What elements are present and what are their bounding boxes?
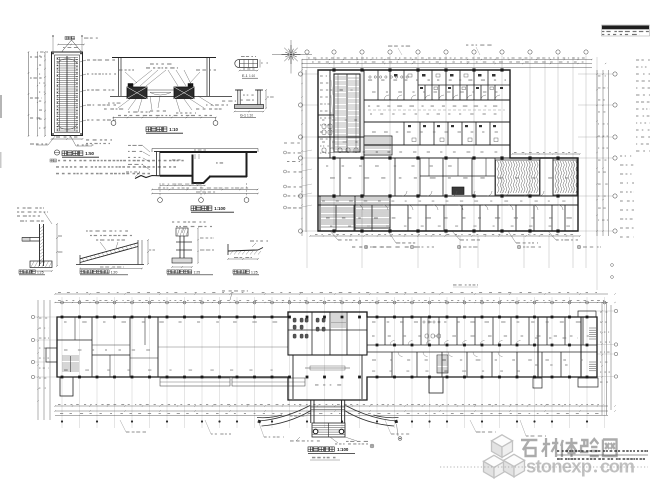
plan2 canopy edge over steps [311, 406, 345, 408]
section C-C small dim cluster [160, 185, 205, 187]
plan1 interior door arcs band [358, 191, 563, 210]
plan1 mid rooms walls [364, 121, 510, 123]
sheet left edge artifact [0, 95, 2, 118]
svg-text:1:100: 1:100 [337, 447, 349, 452]
plan2 interior stair hatch right band [437, 355, 448, 373]
watermark glyph ti [561, 440, 563, 446]
plan2 open bay mid line [158, 346, 288, 348]
svg-text:1:25: 1:25 [193, 270, 200, 274]
plan1 mid rooms equipment marks [408, 125, 496, 127]
north arrow axes [272, 54, 312, 56]
plan2 column grid lines [62, 297, 605, 428]
plan1 stair hatch block [355, 196, 390, 228]
plan1 far right elevation text column [636, 60, 639, 61]
section B-B left curb block [127, 87, 147, 99]
plan2 entrance wing right tip marker [394, 420, 398, 424]
plan2 bottom grid bubbles [61, 420, 63, 422]
ramp detail leader labels [86, 230, 88, 231]
plan1 auditorium seating hatch 2 [553, 160, 577, 195]
ramp detail left dimension line [44, 52, 46, 136]
watermark dotted underline [440, 466, 648, 468]
section B-B right wall [206, 58, 208, 97]
ramp detail end posts [79, 255, 81, 265]
plan2 right thick walls [537, 317, 539, 377]
section B-B right curb block [174, 87, 194, 99]
ramp plan switchback bottom arc [58, 125, 77, 129]
section C-C ground line [152, 148, 258, 150]
section C-C title glyphs [191, 206, 196, 211]
plan2 top dimension lines [55, 293, 608, 295]
channel G-1 left post [238, 90, 241, 105]
detail A-A wall hatch [40, 226, 44, 264]
grating E-1 plan [240, 60, 258, 68]
svg-text:1:20: 1:20 [111, 270, 118, 274]
plan1 vehicle ramp rails [334, 74, 360, 152]
svg-text:G-1: G-1 [240, 114, 246, 118]
plan2 entrance steps [312, 423, 345, 437]
plan1 top rooms door arcs [384, 95, 500, 100]
plan2 right end stair hatch lower [589, 362, 596, 371]
plan2 left block inner partitions [74, 317, 76, 340]
channel G-1 top caps [235, 89, 243, 91]
plan1 left stair core [320, 196, 355, 231]
apron detail leader label [250, 240, 254, 241]
svg-text:1:10: 1:10 [249, 74, 255, 78]
plan1 ramp side walls [329, 70, 331, 158]
ramp detail left dimension text [39, 56, 41, 57]
plan2 right annex [429, 377, 443, 393]
plan1 right grid bubbles [613, 72, 617, 76]
plan2 top grid bubbles [61, 301, 64, 304]
plan1 toilet fixture circles row [369, 76, 408, 78]
plan1 interior dimension noise rows [368, 80, 372, 81]
ramp plan switchback top arc [58, 59, 77, 63]
gutter detail leader labels [172, 221, 174, 222]
plan2 entrance wing right arcs [345, 406, 399, 427]
general notes line 2 [56, 166, 59, 168]
ramp plan hatch rungs [57, 58, 79, 132]
section B-B leader fan upper [132, 70, 152, 86]
plan2 left dimension strip [37, 300, 39, 420]
section C-C approach ramp line [135, 176, 160, 179]
plan2 lobby label [315, 384, 319, 385]
ramp detail top gable annotation [62, 40, 82, 52]
section C-C left wall [156, 152, 158, 177]
plan2 entrance wing left tip marker [257, 420, 261, 424]
section C-C pit wall [192, 155, 194, 184]
plan2 right band door arcs [390, 341, 521, 357]
ramp detail far-left labels [30, 56, 32, 57]
plan1 top dimension lines [302, 59, 592, 61]
plan2 left block partitions [91, 317, 93, 377]
watermark glyphs group [521, 438, 617, 457]
plan1 band corridor walls [318, 195, 578, 197]
gutter detail fins [176, 241, 192, 243]
detail A-A leader labels [17, 207, 19, 208]
plan2 main outline [57, 312, 597, 400]
plan2 right band bottom partitions [392, 352, 561, 377]
svg-text:1:10: 1:10 [169, 127, 178, 132]
plan1 equipment outline marks [408, 74, 494, 90]
plan2 center tower walls [288, 312, 367, 355]
section B-B leader fan lower [118, 99, 130, 108]
watermark glyph yan [581, 440, 588, 452]
section C-C left leader labels [143, 146, 150, 152]
svg-text:1:100: 1:100 [214, 206, 226, 211]
plan1 left annotation column [320, 76, 323, 77]
plan1 small note below [453, 284, 457, 285]
svg-text:1:25: 1:25 [251, 270, 258, 274]
plan2 left exterior bump [46, 348, 57, 362]
plan1 right dimension lines [596, 70, 598, 236]
ramp detail title glyphs [62, 151, 67, 156]
watermark cube bottom-left [484, 455, 505, 478]
detail A-A base block [30, 261, 52, 268]
north arrow star [282, 45, 301, 64]
general notes line 3 [56, 173, 59, 175]
plan1 column grid lines [307, 56, 597, 291]
plan1 band top wall [318, 157, 510, 159]
plan1 below-plan dimension line [310, 235, 580, 237]
ramp detail bottom dimension line [52, 138, 83, 140]
section C-C main dimension line [152, 189, 258, 191]
watermark glyph wang [603, 440, 617, 457]
plan2 room label noise rows [64, 322, 67, 323]
plan1 mid rooms partitions [404, 122, 490, 145]
watermark glyph shi [521, 439, 537, 442]
section B-B grid bubbles [111, 121, 116, 126]
section B-B left wall [118, 58, 120, 97]
section C-C top slab thick line [160, 151, 257, 153]
plan2 bottom annex mid-right [533, 378, 542, 388]
plan1 top grid bubbles [305, 50, 309, 54]
plan1 band upper sub-row wall [420, 175, 495, 177]
plan2 left grid bubbles [31, 315, 34, 318]
watermark disclaimer row 1 [557, 450, 559, 452]
plan1 top rooms walls [364, 99, 510, 101]
gutter detail wall verticals [179, 236, 181, 260]
plan1 equipment marks upper rooms [394, 74, 503, 89]
plan2 portico side walls [310, 400, 312, 423]
ramp detail top dimension line [58, 44, 84, 46]
plan1 left side leader labels [284, 151, 287, 154]
section B-B floor line [110, 96, 232, 98]
plan2 bottom annex far-right [578, 378, 598, 387]
apron detail title glyphs [233, 270, 237, 274]
watermark cube top [492, 435, 513, 458]
plan2 entrance leader notes [345, 437, 357, 441]
plan1 band lower partitions [336, 205, 565, 231]
svg-text:1:50: 1:50 [85, 151, 94, 156]
plan1 leader marker circles row [364, 245, 368, 249]
plan1 below-plan leader labels [330, 231, 338, 240]
plan2 portico column right [339, 429, 344, 434]
plan2 toilet fixtures right band [423, 321, 441, 338]
plan1 mid-left room fixtures [322, 124, 358, 153]
plan2 right grid bubbles [614, 309, 617, 312]
plan1 column dots [332, 68, 559, 232]
section C-C overall dimension line [152, 193, 258, 195]
apron detail surface line [228, 250, 258, 251]
plan1 outer wall [318, 70, 578, 231]
section C-C right wall [246, 152, 248, 177]
svg-text:E-1: E-1 [242, 74, 248, 78]
plan2 toilet fixtures [293, 318, 325, 338]
ramp detail title glyphs [80, 270, 84, 274]
plan1 inter-plan small circles [611, 264, 614, 267]
detail A-A wall verticals [39, 224, 41, 266]
channel G-1 dimensions [265, 90, 267, 109]
ramp plan corner dots [52, 53, 54, 55]
ramp detail slope lines [80, 247, 138, 263]
ramp plan dotted side columns [57, 58, 78, 132]
plan2 open bay porch [160, 378, 230, 386]
plan1 corridor mid line [368, 109, 505, 111]
plan1 left grid bubbles [298, 72, 302, 76]
watermark disclaimer row 2 [557, 458, 560, 460]
section C-C room labels [216, 162, 218, 163]
detail A-A dimension lines [56, 224, 58, 266]
ramp detail middle dimension line [37, 52, 39, 136]
plan2 left stair hatch [62, 356, 79, 371]
ramp plan detail inner wall [55, 55, 80, 133]
ramp detail top left small marks [40, 52, 44, 53]
plan1 above-plan leader notes [388, 46, 392, 47]
gutter detail top channel hatch block [176, 228, 188, 236]
plan2 below-plan leader labels [120, 420, 126, 432]
plan2 left annex [60, 377, 73, 396]
gutter detail dimensions [197, 228, 199, 263]
channel G-1 bottom slab [235, 105, 264, 109]
ramp detail section marker circle [54, 150, 59, 155]
plan1 upper-left lobby walls [318, 114, 334, 116]
ramp detail outer dimension line [28, 52, 30, 136]
plan2 portico column left [313, 429, 318, 434]
svg-text:1:25: 1:25 [37, 270, 44, 274]
grating E-1 dimensions [240, 70, 258, 72]
gutter detail base pad [172, 258, 192, 263]
section C-C floor slab left [160, 175, 193, 177]
section B-B title glyphs [146, 127, 151, 132]
plan2 right dimension strip [601, 302, 603, 415]
apron detail hatch [230, 251, 261, 255]
plan2 tower stair hatch [331, 314, 346, 327]
plan2 top leader note right [222, 290, 225, 291]
ramp plan detail outer wall [52, 52, 83, 136]
plan1 band right dim strip [512, 153, 580, 155]
section B-B center pit lines [147, 89, 174, 91]
ramp detail bottom leader notes [48, 135, 56, 145]
gutter detail title glyphs [167, 270, 171, 274]
plan1 mid stair block [364, 136, 392, 155]
section B-B small embeds [128, 84, 133, 87]
section B-B top slab line [112, 57, 216, 59]
plan1 band upper partitions [340, 158, 577, 196]
plan2 column dots [61, 316, 589, 379]
plan2 right band top partitions [385, 317, 583, 345]
plan2 right band corridor [367, 344, 597, 346]
watermark disclaimer divider [557, 454, 648, 456]
detail A-A ledge [22, 237, 40, 239]
plan2 right end stair hatch upper [589, 328, 596, 339]
svg-text:1:10: 1:10 [247, 114, 253, 118]
plan2 top-right vestibule annex [578, 311, 596, 317]
sheet title block highlighted line [602, 26, 649, 30]
channel G-1 right post [258, 90, 261, 105]
ramp detail slope hatch [82, 244, 136, 262]
general notes line 1 [50, 159, 53, 162]
plan1 left dimension lines [301, 60, 303, 236]
section C-C door swing marks [194, 154, 196, 159]
plan2 lobby walls [292, 355, 294, 399]
plan1 auditorium seating hatch 1 [496, 160, 540, 195]
section C-C pit bottom [192, 182, 205, 184]
plan area subtitle [312, 457, 315, 459]
watermark glyph cai [543, 443, 550, 446]
plan1 vehicle ramp rungs [335, 77, 359, 150]
ramp detail ground line [76, 264, 144, 266]
section B-B dimension line [113, 117, 216, 119]
ramp detail right leader annotations [80, 60, 86, 62]
section C-C pit ramp [203, 177, 210, 184]
sheet title block text lines [602, 31, 604, 32]
section C-C floor slab right [209, 176, 247, 178]
plan2 bottom dimension lines [55, 405, 608, 407]
plan2 entrance wing left arcs [257, 406, 311, 427]
ramp plan inner rails [59, 57, 61, 131]
ramp detail dimensions [147, 240, 149, 264]
plan1 band room label noise [330, 177, 335, 178]
section C-C grid bubbles [159, 183, 161, 198]
plan title glyphs [308, 447, 313, 452]
apron detail wall edge [227, 244, 229, 255]
apron detail dimension [228, 258, 258, 260]
plan1 dark equipment block [452, 187, 464, 195]
watermark cube bottom-right [504, 454, 525, 477]
detail A-A title glyphs [19, 270, 23, 274]
